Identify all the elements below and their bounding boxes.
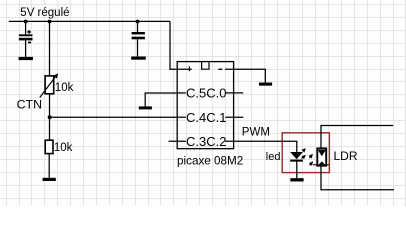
pin + tick	[188, 66, 190, 71]
annotation dark red line	[313, 164, 329, 166]
LDR incident arrows	[309, 154, 312, 165]
pin - dash	[218, 68, 222, 70]
ground under LED	[290, 178, 303, 181]
svg-text:led: led	[266, 151, 281, 163]
wire - pin to ground	[225, 69, 265, 82]
IC notch	[202, 62, 209, 70]
capacitor C2	[132, 21, 145, 56]
pin C.0 line	[225, 92, 243, 94]
node 5V bus wire	[9, 20, 170, 22]
annotation red box around led/LDR	[282, 133, 329, 173]
wire node to C.4 pin	[50, 116, 177, 118]
LED D1	[290, 152, 303, 178]
svg-text:picaxe 08M2: picaxe 08M2	[177, 154, 243, 167]
ground at - pin	[259, 83, 272, 86]
svg-text:LDR: LDR	[334, 149, 358, 163]
wire bus to CTN	[49, 21, 51, 75]
wire C.5 to ground	[145, 93, 177, 106]
junction C1-bus	[24, 20, 28, 24]
wire R1 to ground	[48, 154, 50, 178]
capacitor C1 polarized	[19, 21, 33, 57]
wire C.2/PWM to led	[225, 141, 296, 152]
svg-text:PWM: PWM	[242, 126, 270, 138]
wire LDR bottom rail	[321, 166, 394, 189]
junction CTN-bus	[48, 20, 52, 24]
thermistor CTN 10k	[40, 74, 58, 98]
svg-text:C.5C.0: C.5C.0	[186, 86, 226, 101]
svg-text:10k: 10k	[55, 82, 74, 94]
ground under R1	[43, 178, 56, 181]
junction divider node	[48, 115, 52, 119]
ground under C2	[131, 56, 146, 59]
resistor R1 10k	[45, 140, 53, 153]
pin C.4 line	[177, 116, 186, 118]
junction C2-bus	[136, 20, 140, 24]
pin C.3 line	[169, 140, 186, 142]
ground at C.5	[139, 106, 152, 109]
pin C.1 line	[225, 116, 243, 118]
ground under C1	[19, 57, 33, 60]
op-amp U1 picaxe 08M2 box	[177, 62, 233, 149]
svg-text:10k: 10k	[54, 142, 73, 154]
wire LDR top rail	[321, 126, 393, 148]
LED emission arrows	[302, 149, 306, 159]
svg-text:C.4C.1: C.4C.1	[186, 110, 226, 125]
svg-text:5V régulé: 5V régulé	[20, 7, 69, 19]
svg-text:C.3C.2: C.3C.2	[186, 134, 226, 149]
photoresistor LDR	[317, 148, 326, 165]
wire node to R1	[49, 117, 51, 140]
svg-text:CTN: CTN	[17, 97, 42, 111]
wire bus to IC + pin	[170, 21, 192, 69]
pin C.5 line	[177, 92, 186, 94]
wire CTN to node	[49, 94, 51, 117]
